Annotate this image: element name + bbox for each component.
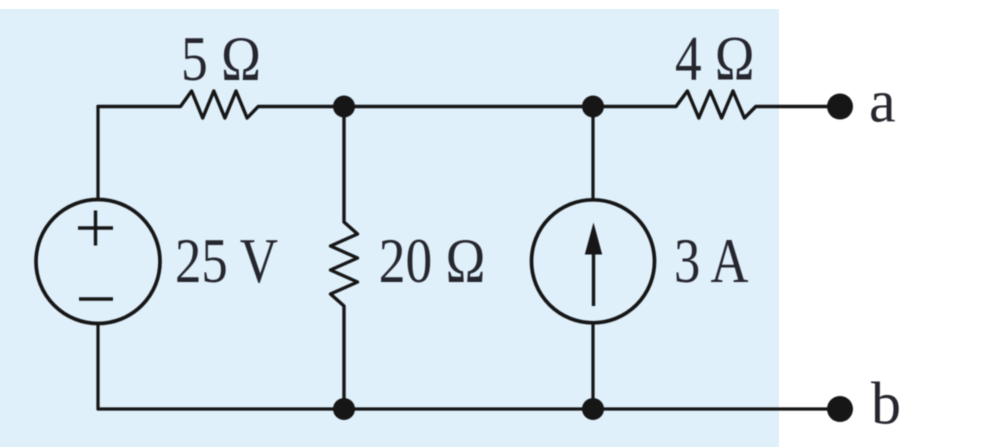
svg-text:25 V: 25 V [175,225,278,296]
svg-text:5 Ω: 5 Ω [181,23,261,94]
svg-text:b: b [871,371,901,437]
svg-text:4 Ω: 4 Ω [675,23,755,94]
svg-text:20 Ω: 20 Ω [379,225,486,296]
svg-text:a: a [869,69,896,135]
svg-text:3 A: 3 A [674,225,749,296]
